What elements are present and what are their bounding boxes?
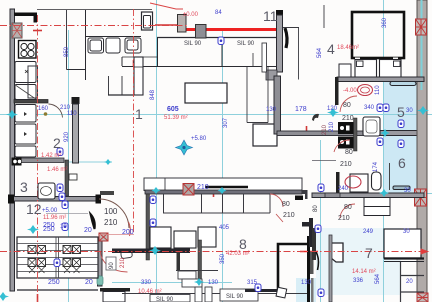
svg-text:20: 20 (85, 279, 93, 286)
svg-text:200: 200 (122, 229, 134, 236)
svg-text:+5.80: +5.80 (191, 136, 207, 142)
svg-text:564: 564 (375, 273, 381, 284)
svg-text:10: 10 (60, 224, 67, 230)
svg-text:SIL 90: SIL 90 (237, 41, 255, 47)
svg-text:80: 80 (313, 205, 319, 212)
svg-text:178: 178 (295, 106, 307, 113)
svg-text:250: 250 (43, 222, 55, 229)
svg-text:12: 12 (26, 201, 42, 217)
svg-text:7: 7 (365, 245, 373, 261)
svg-text:210: 210 (329, 121, 335, 132)
svg-text:210: 210 (283, 212, 295, 219)
svg-text:4: 4 (327, 41, 335, 57)
svg-text:-4.00: -4.00 (343, 88, 357, 94)
svg-text:SIL 90: SIL 90 (184, 41, 202, 47)
svg-text:850: 850 (64, 46, 70, 57)
svg-text:564: 564 (317, 47, 323, 58)
svg-text:18.46m²: 18.46m² (337, 45, 359, 51)
svg-text:340: 340 (364, 105, 375, 111)
svg-text:336: 336 (353, 278, 364, 284)
svg-text:250: 250 (48, 279, 60, 286)
svg-text:1.46 m²: 1.46 m² (47, 167, 67, 173)
svg-text:120: 120 (327, 106, 338, 112)
svg-text:160: 160 (38, 106, 49, 112)
svg-text:130: 130 (301, 280, 312, 286)
svg-text:1.42 m²: 1.42 m² (41, 153, 61, 159)
svg-text:80: 80 (345, 149, 353, 156)
svg-text:210: 210 (338, 215, 350, 222)
svg-text:20: 20 (84, 227, 92, 234)
svg-text:210: 210 (322, 124, 328, 135)
svg-text:5: 5 (397, 104, 405, 120)
svg-text:11: 11 (263, 8, 278, 24)
svg-text:80: 80 (343, 102, 351, 109)
svg-text:315: 315 (247, 280, 258, 286)
svg-text:SIL 90: SIL 90 (226, 294, 244, 300)
svg-text:90: 90 (109, 262, 115, 269)
svg-text:240: 240 (338, 186, 349, 192)
svg-text:100: 100 (104, 207, 118, 216)
svg-text:307: 307 (223, 117, 229, 128)
svg-text:174: 174 (373, 161, 379, 172)
svg-text:110: 110 (375, 85, 381, 95)
svg-text:210: 210 (342, 115, 354, 122)
svg-text:80: 80 (282, 201, 290, 208)
svg-text:210: 210 (120, 257, 126, 268)
svg-text:20: 20 (406, 279, 413, 285)
svg-text:360: 360 (382, 17, 388, 28)
svg-text:210: 210 (104, 218, 118, 227)
svg-text:405: 405 (219, 225, 230, 231)
svg-text:+5.00: +5.00 (42, 208, 58, 214)
svg-text:920: 920 (64, 131, 70, 142)
svg-text:110: 110 (67, 111, 77, 117)
svg-text:51.39 m²: 51.39 m² (164, 115, 188, 121)
svg-text:14.14 m²: 14.14 m² (352, 269, 376, 275)
svg-text:80: 80 (344, 204, 352, 211)
svg-text:2: 2 (53, 135, 61, 151)
svg-text:±0.00: ±0.00 (183, 12, 199, 18)
svg-text:3: 3 (20, 179, 28, 195)
svg-text:1: 1 (135, 106, 143, 122)
svg-text:42.03 m²: 42.03 m² (226, 251, 250, 257)
svg-text:30: 30 (403, 229, 410, 235)
svg-text:210: 210 (340, 161, 352, 168)
svg-text:848: 848 (150, 89, 156, 100)
svg-text:6: 6 (398, 155, 406, 171)
svg-text:249: 249 (363, 229, 374, 235)
svg-text:8: 8 (239, 236, 247, 252)
svg-text:130: 130 (266, 107, 277, 113)
svg-text:130: 130 (208, 280, 219, 286)
svg-text:84: 84 (215, 10, 222, 16)
svg-text:30: 30 (406, 108, 413, 114)
svg-text:30: 30 (404, 188, 411, 194)
svg-text:SIL 90: SIL 90 (156, 297, 174, 302)
svg-text:210: 210 (197, 184, 209, 191)
svg-text:330: 330 (141, 280, 152, 286)
svg-text:605: 605 (167, 106, 179, 113)
svg-text:10.46 m²: 10.46 m² (138, 289, 162, 295)
svg-text:11.96 m²: 11.96 m² (43, 215, 66, 221)
